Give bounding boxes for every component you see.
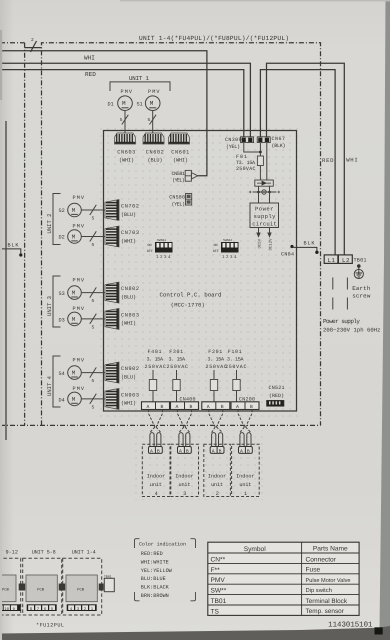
svg-text:ON: ON [214, 243, 218, 248]
svg-text:M: M [72, 370, 76, 377]
svg-text:*FU12PUL: *FU12PUL [36, 623, 64, 629]
scan artifact left page line [5, 121, 7, 440]
svg-text:PMV: PMV [121, 89, 133, 95]
connector CN902 [105, 362, 119, 383]
svg-text:A: A [147, 404, 150, 410]
slash 5 wires S4 [90, 367, 97, 377]
svg-text:2: 2 [31, 37, 34, 43]
unit 1-4 box [63, 558, 102, 615]
svg-text:CN67: CN67 [272, 136, 286, 142]
svg-text:Power supply: Power supply [323, 318, 360, 325]
svg-text:PMV: PMV [73, 306, 85, 312]
motor D1 [118, 96, 133, 111]
svg-text:OFF: OFF [147, 249, 153, 254]
svg-text:250VAC: 250VAC [236, 166, 256, 172]
svg-text:BLU:BLUE: BLU:BLUE [141, 576, 166, 582]
svg-text:BLK:BLACK: BLK:BLACK [141, 585, 170, 591]
connector CN602 [143, 133, 164, 144]
svg-text:CN521: CN521 [269, 385, 285, 391]
svg-text:Terminal Block: Terminal Block [306, 598, 348, 605]
svg-text:(YEL): (YEL) [226, 144, 240, 150]
svg-text:B: B [250, 404, 253, 410]
svg-text:PMV: PMV [73, 223, 85, 229]
scan artifact corner square [375, 627, 383, 634]
svg-text:BRN:BROWN: BRN:BROWN [141, 593, 169, 599]
dip switch SW502 [213, 239, 239, 260]
svg-text:PCB: PCB [37, 588, 45, 593]
svg-text:B: B [157, 449, 160, 455]
dip switch SW501 [147, 239, 173, 260]
svg-text:unit: unit [179, 482, 191, 488]
svg-text:OFF: OFF [213, 249, 219, 254]
motor D3 [68, 312, 82, 326]
connector CN903 [105, 388, 119, 409]
svg-text:M: M [122, 100, 126, 107]
surge arrester row [249, 186, 280, 194]
field wiring crossings unit3 [178, 410, 192, 447]
svg-text:250VAC: 250VAC [145, 364, 167, 370]
color indication legend [135, 539, 196, 601]
connector CN580 [186, 194, 192, 206]
terminal block TB01 L1 [324, 255, 338, 264]
svg-text:Temp. sensor: Temp. sensor [306, 608, 345, 615]
svg-text:UNIT 3: UNIT 3 [46, 296, 53, 316]
connector CN581 [185, 170, 198, 181]
svg-text:Dip switch: Dip switch [306, 587, 332, 594]
svg-text:CN**: CN** [211, 556, 226, 563]
svg-text:A: A [236, 404, 239, 410]
wire S1 to CN602 [152, 111, 154, 134]
svg-text:3. 15A: 3. 15A [208, 357, 225, 363]
field wiring crossings unit4 [149, 410, 163, 447]
wire L2 to CN67 pin2 [267, 63, 345, 255]
earth screw symbol [354, 265, 363, 279]
svg-text:208~230V 1ph 60Hz: 208~230V 1ph 60Hz [323, 326, 381, 333]
motor S4 [68, 366, 82, 380]
svg-text:PMV: PMV [73, 278, 85, 284]
svg-text:A: A [207, 404, 210, 410]
wire D4 to CN903 [81, 398, 105, 400]
svg-text:RED:RED: RED:RED [141, 551, 163, 557]
svg-text:CN602: CN602 [146, 149, 164, 155]
connector CN703 [105, 226, 119, 247]
svg-text:CN601: CN601 [171, 149, 189, 155]
svg-text:TS: TS [211, 608, 220, 615]
wire fuse to transformer [260, 143, 266, 180]
svg-text:UNIT 1-4: UNIT 1-4 [72, 549, 96, 555]
svg-text:S3: S3 [59, 291, 65, 297]
svg-text:Earth: Earth [352, 285, 370, 292]
motor D2 [68, 230, 82, 244]
indoor unit 2 box [204, 444, 231, 496]
junction dot BLK left [19, 253, 22, 256]
svg-text:B: B [190, 404, 193, 410]
unit 2 bracket [53, 194, 61, 245]
svg-text:M: M [72, 234, 76, 241]
junction dot BLK right [315, 251, 318, 254]
wire S4 to CN902 [81, 372, 105, 374]
svg-text:Fuse: Fuse [306, 567, 321, 574]
svg-text:250VAC: 250VAC [167, 364, 189, 370]
svg-text:Parts Name: Parts Name [313, 545, 348, 552]
svg-text:TB01: TB01 [354, 258, 367, 264]
svg-text:(WHI): (WHI) [121, 401, 136, 407]
svg-text:Connector: Connector [306, 556, 337, 563]
svg-text:WHI: WHI [346, 156, 358, 163]
svg-text:CN580: CN580 [169, 194, 185, 200]
svg-text:D1: D1 [108, 102, 114, 108]
svg-text:Indoor: Indoor [208, 474, 227, 480]
svg-text:B: B [186, 449, 189, 455]
svg-text:ON: ON [148, 243, 152, 248]
svg-text:PMV: PMV [148, 89, 160, 95]
slash 5 wires S1 [150, 115, 157, 125]
svg-text:(MCC-1770): (MCC-1770) [171, 302, 205, 308]
svg-text:(YEL): (YEL) [172, 202, 186, 208]
wire BLK left [0, 249, 21, 254]
svg-text:D3: D3 [59, 317, 65, 323]
svg-text:3. 15A: 3. 15A [169, 357, 186, 363]
svg-text:B: B [161, 404, 164, 410]
svg-text:CN309: CN309 [225, 137, 242, 143]
junction dot jumper [259, 151, 262, 154]
svg-text:CN702: CN702 [121, 204, 139, 210]
svg-text:5: 5 [148, 118, 151, 123]
svg-text:UNIT 1-4(*FU4PUL)/(*FU8PUL)/(*: UNIT 1-4(*FU4PUL)/(*FU8PUL)/(*FU12PUL) [139, 35, 289, 42]
svg-text:L1: L1 [328, 257, 336, 264]
wire S2 to CN702 [81, 209, 105, 211]
svg-text:RED: RED [322, 157, 334, 164]
svg-text:TB01: TB01 [211, 598, 227, 605]
wire D3 to CN803 [81, 318, 105, 320]
boundary dash-dot outdoor bottom [0, 424, 321, 426]
svg-text:Power: Power [255, 206, 274, 213]
transformer / noise filter [255, 180, 273, 186]
indoor unit 4 box [142, 444, 170, 496]
svg-text:(WHI): (WHI) [121, 321, 136, 327]
wire BLK right [292, 247, 317, 251]
wire spare to CN581 [0, 51, 207, 176]
connector CN601 [169, 133, 190, 144]
svg-text:5: 5 [92, 325, 95, 330]
svg-text:F401: F401 [148, 349, 162, 355]
svg-text:CN903: CN903 [121, 392, 139, 398]
svg-text:DC12V: DC12V [268, 238, 273, 251]
svg-text:1 2 3 4: 1 2 3 4 [156, 255, 171, 260]
svg-text:M: M [72, 316, 76, 323]
svg-text:4: 4 [155, 491, 158, 497]
svg-text:PCB: PCB [2, 588, 10, 593]
svg-text:S1: S1 [137, 102, 143, 108]
svg-text:(BLU): (BLU) [148, 157, 163, 163]
unit 1 bracket [110, 82, 170, 91]
svg-text:3: 3 [183, 491, 186, 497]
connector CN803 [105, 308, 119, 329]
svg-text:RED: RED [85, 71, 96, 78]
connector CN04 dot [290, 245, 293, 248]
indoor unit 3 box [171, 444, 199, 496]
svg-text:B: B [221, 404, 224, 410]
svg-text:5: 5 [92, 405, 95, 410]
svg-text:WHI:WHITE: WHI:WHITE [141, 559, 169, 565]
wires into power supply box [259, 192, 270, 203]
svg-text:5: 5 [92, 217, 95, 222]
svg-text:A: A [212, 449, 215, 455]
svg-text:D4: D4 [59, 397, 65, 403]
fuse F01 [257, 156, 263, 166]
svg-text:Pulse Motor Valve: Pulse Motor Valve [306, 577, 351, 584]
svg-text:F301: F301 [169, 349, 183, 355]
power supply circuit box [250, 203, 279, 228]
svg-text:circuit: circuit [252, 221, 276, 228]
wire RED left [0, 70, 244, 137]
svg-text:SW501: SW501 [157, 239, 166, 242]
svg-text:3. 15A: 3. 15A [147, 357, 164, 363]
svg-text:PMV: PMV [73, 195, 85, 201]
svg-text:B: B [247, 449, 250, 455]
fuse F201 [213, 370, 215, 402]
svg-text:SW**: SW** [211, 588, 227, 595]
svg-text:3. 15A: 3. 15A [227, 357, 244, 363]
svg-text:Control P.C. board: Control P.C. board [160, 292, 222, 299]
svg-text:1 2 3 4: 1 2 3 4 [222, 255, 237, 260]
svg-text:D2: D2 [59, 235, 65, 241]
svg-text:250VAC: 250VAC [225, 364, 247, 370]
unit 9-12 box [0, 558, 21, 615]
svg-text:PMV: PMV [73, 386, 85, 392]
indoor unit 1 box [232, 444, 260, 496]
svg-text:2: 2 [216, 491, 219, 497]
wire 2-link between groups [25, 47, 42, 49]
svg-text:unit: unit [239, 482, 251, 488]
control PCB box [104, 131, 297, 412]
fuse F101 [236, 370, 238, 402]
slash 5 wires S2 [90, 205, 97, 215]
symbol table [208, 542, 359, 615]
svg-text:CN04: CN04 [281, 252, 294, 258]
slash 5 wires D2 [90, 231, 97, 241]
motor S2 [68, 203, 82, 217]
svg-text:supply: supply [254, 213, 277, 220]
svg-text:Indoor: Indoor [147, 474, 166, 480]
svg-text:A: A [150, 449, 153, 455]
svg-text:5: 5 [120, 118, 123, 123]
svg-text:A: A [179, 449, 182, 455]
svg-text:Symbol: Symbol [244, 546, 267, 553]
connector CN603 [115, 133, 136, 144]
slash 5 wires D4 [90, 394, 97, 404]
scan artifact bottom band [0, 626, 390, 640]
wire S3 to CN802 [81, 292, 105, 294]
bus nubs between unit boxes [19, 584, 26, 591]
svg-text:DC5V: DC5V [257, 238, 262, 248]
svg-text:unit: unit [211, 482, 223, 488]
svg-text:UNIT 1: UNIT 1 [129, 75, 150, 82]
svg-text:M: M [150, 100, 154, 107]
field wiring crossings unit2 [209, 410, 223, 447]
svg-text:(WHI): (WHI) [173, 157, 188, 163]
wire WHI left [0, 63, 250, 137]
svg-text:A: A [176, 404, 179, 410]
wire-count slash 2 [31, 41, 37, 52]
svg-text:CN802: CN802 [121, 286, 139, 292]
svg-text:unit: unit [150, 482, 162, 488]
DC output arrows [257, 228, 271, 237]
slash 5 wires D3 [90, 314, 97, 324]
svg-text:CN902: CN902 [121, 366, 139, 372]
svg-text:PMV: PMV [73, 358, 85, 364]
svg-text:CN603: CN603 [117, 149, 135, 155]
svg-text:TB01: TB01 [104, 574, 112, 578]
svg-text:L2: L2 [342, 257, 350, 264]
svg-text:BLK: BLK [8, 243, 20, 249]
svg-text:(WHI): (WHI) [119, 157, 134, 163]
wire D1 to CN603 [124, 111, 126, 134]
motor D4 [68, 392, 82, 406]
svg-text:S2: S2 [59, 208, 65, 214]
scan artifact left edge [0, 0, 2, 640]
svg-text:PCB: PCB [77, 588, 85, 593]
svg-text:Indoor: Indoor [236, 474, 255, 480]
svg-text:BLK: BLK [304, 241, 316, 247]
svg-text:(WHI): (WHI) [121, 238, 136, 244]
connector CN309 [241, 137, 254, 143]
svg-text:YEL:YELLOW: YEL:YELLOW [141, 568, 173, 574]
svg-text:WHI: WHI [84, 55, 95, 62]
svg-text:screw: screw [352, 292, 371, 299]
svg-text:CN803: CN803 [121, 312, 139, 318]
svg-text:CN581: CN581 [172, 171, 186, 177]
fuse F401 [152, 370, 154, 402]
fuse F301 [176, 370, 178, 402]
svg-text:10: 10 [4, 607, 9, 612]
wire CN309 jumper [244, 143, 261, 156]
wire D2 to CN703 [81, 236, 105, 238]
unit 3 bracket [53, 276, 61, 327]
slash 5 wires S3 [90, 287, 97, 297]
svg-text:PMV: PMV [211, 577, 226, 584]
svg-text:Color indication: Color indication [139, 541, 186, 547]
slash 5 wires D1 [122, 115, 129, 125]
svg-text:B: B [219, 449, 222, 455]
svg-text:F**: F** [211, 567, 221, 574]
svg-text:CN703: CN703 [121, 230, 139, 236]
connector CN802 [105, 282, 119, 303]
svg-text:M: M [72, 396, 76, 403]
svg-text:F101: F101 [228, 349, 242, 355]
svg-text:(BLU): (BLU) [121, 294, 136, 300]
svg-text:UNIT 9-12: UNIT 9-12 [0, 549, 18, 555]
svg-text:(BLU): (BLU) [121, 212, 136, 218]
svg-text:5: 5 [92, 299, 95, 304]
motor S1 [145, 96, 160, 111]
svg-text:5: 5 [92, 243, 95, 248]
svg-text:5: 5 [92, 379, 95, 384]
wire L1 to CN67 pin1 [260, 70, 335, 255]
svg-text:A: A [240, 449, 243, 455]
field wiring crossings unit1 [238, 410, 252, 447]
svg-text:(BLK): (BLK) [272, 143, 286, 149]
unit 4 bracket [53, 356, 61, 407]
svg-text:S4: S4 [59, 371, 65, 377]
svg-text:UNIT 2: UNIT 2 [46, 214, 53, 234]
svg-text:UNIT 5-8: UNIT 5-8 [32, 549, 56, 555]
terminal block TB01 L2 [338, 255, 352, 264]
scan artifact right band [377, 0, 390, 640]
motor S3 [68, 286, 82, 300]
boundary dash-dot left group [0, 43, 25, 426]
connector CN702 [105, 200, 119, 221]
svg-text:(YEL): (YEL) [172, 177, 185, 183]
svg-text:(RED): (RED) [269, 393, 284, 399]
boundary dash-dot unit1-4 group [42, 43, 321, 426]
terminal TB01 small box [104, 578, 114, 591]
svg-text:UNIT 4: UNIT 4 [46, 375, 53, 396]
unit 5-8 box [23, 558, 62, 615]
svg-text:(BLU): (BLU) [121, 374, 136, 380]
svg-text:M: M [72, 290, 76, 297]
connector CN67 [257, 137, 270, 143]
power supply dashed leads [332, 278, 334, 312]
svg-text:1: 1 [244, 491, 247, 497]
svg-text:F201: F201 [208, 349, 222, 355]
svg-text:250VAC: 250VAC [206, 364, 228, 370]
svg-text:SW502: SW502 [223, 239, 232, 242]
svg-text:Indoor: Indoor [175, 474, 194, 480]
svg-text:M: M [72, 207, 76, 214]
